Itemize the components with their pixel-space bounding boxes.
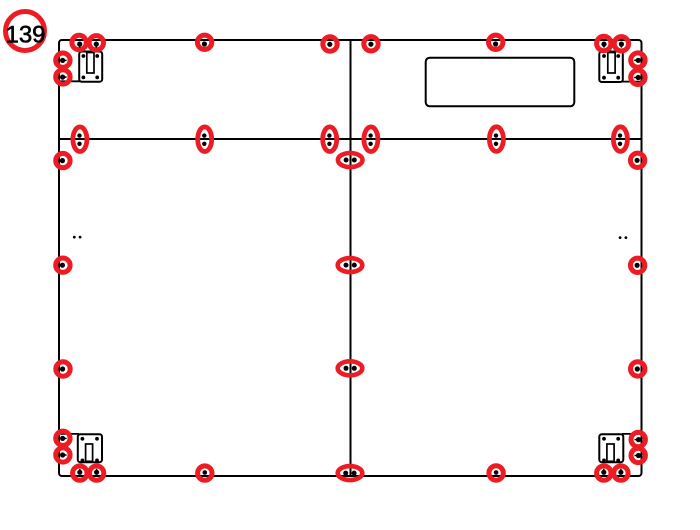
screw pair highlight rail ellipse 1 [73, 127, 87, 152]
screw highlight right edge 6 [631, 432, 645, 446]
screw highlight left edge 1 [56, 53, 70, 67]
screw highlight bottom edge 1 [73, 466, 87, 480]
screw highlight bottom edge 3 [198, 466, 212, 480]
screw highlight right edge 4 [630, 258, 644, 272]
screw highlight top edge 5 [364, 37, 378, 51]
screw highlight left edge 2 [56, 70, 70, 84]
screw highlight bottom edge 6 [614, 466, 628, 480]
screw highlight right edge 2 [631, 70, 645, 84]
cabinet back panel outline [59, 40, 642, 476]
pilot hole pair right [619, 236, 628, 239]
screw pair highlight rail ellipse 3 [323, 127, 337, 152]
screw highlight top edge 3 [197, 35, 211, 49]
bracket plate bottom-right [599, 434, 623, 462]
svg-text:139: 139 [5, 21, 45, 48]
screw highlight right edge 1 [631, 53, 645, 67]
screw highlight left edge 7 [56, 448, 70, 462]
screw pair highlight rail ellipse 5 [489, 127, 503, 152]
screw pair highlight rail ellipse 2 [198, 127, 212, 152]
bracket plate top-right [599, 52, 623, 83]
screw highlight bottom edge 4 [489, 466, 503, 480]
screw pair highlight divider ellipse 3 [338, 361, 363, 375]
screw highlight bottom edge 5 [597, 466, 611, 480]
screw highlight left edge 3 [56, 153, 70, 167]
screw pair highlight divider ellipse 4 [338, 466, 363, 480]
screw highlight right edge 7 [631, 448, 645, 462]
screw highlight left edge 6 [56, 431, 70, 445]
screw pair highlight rail ellipse 4 [364, 127, 378, 152]
vertical divider line [350, 40, 352, 476]
screw highlight top edge 1 [72, 35, 86, 49]
screw highlight top edge 7 [597, 36, 611, 50]
label plate top-right [426, 58, 575, 107]
screw highlight top edge 6 [489, 35, 503, 49]
screw highlight top edge 2 [89, 36, 103, 50]
screw highlight bottom edge 2 [89, 466, 103, 480]
screw highlight left edge 5 [56, 362, 70, 376]
screw pair highlight divider ellipse 2 [338, 258, 363, 272]
screw pair highlight divider ellipse 1 [338, 153, 363, 167]
screw highlight right edge 5 [631, 362, 645, 376]
pilot hole pair left [73, 236, 82, 239]
screw highlight top edge 8 [614, 37, 628, 51]
bracket plate bottom-left [78, 434, 102, 462]
bracket plate top-left [79, 52, 102, 82]
screw highlight right edge 3 [630, 153, 644, 167]
top-right joint stub [622, 81, 642, 83]
horizontal rail line [59, 138, 642, 140]
screw highlight top edge 4 [323, 37, 337, 51]
top-left joint stub [59, 80, 80, 82]
bottom-left joint stub [59, 433, 79, 435]
screw highlight left edge 4 [56, 258, 70, 272]
step number badge 139 [5, 12, 45, 51]
screw pair highlight rail ellipse 6 [613, 127, 627, 152]
bottom-right joint stub [622, 433, 642, 435]
